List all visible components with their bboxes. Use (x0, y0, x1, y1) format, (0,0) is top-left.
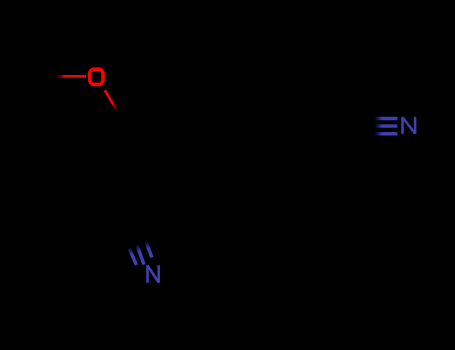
atom O (methoxy oxygen) (90, 69, 103, 84)
nitrile C#N bottom: triple bond line 3 (145, 239, 152, 258)
nitrile C#N right: triple bond line 3 (375, 132, 398, 135)
atom N (bottom nitrile nitrogen) (148, 265, 159, 283)
bond CH3-O (methyl to ether oxygen) (56, 75, 86, 78)
nitrile C#N right: triple bond line 2 (375, 124, 398, 127)
nitrile C#N bottom: triple bond line 2 (137, 244, 144, 265)
nitrile C#N bottom: triple bond line 1 (129, 248, 136, 265)
bond O-C(ring) (105, 90, 118, 111)
atom N (right nitrile nitrogen) (403, 117, 416, 134)
nitrile C#N right: triple bond line 1 (375, 117, 398, 120)
